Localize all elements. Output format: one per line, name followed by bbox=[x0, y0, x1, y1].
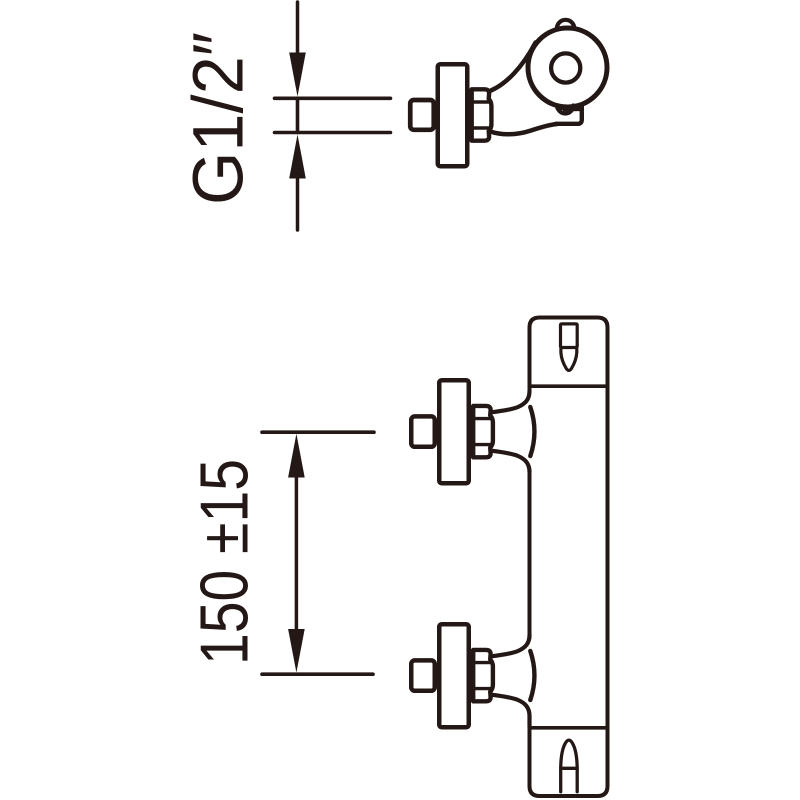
upper inlet union nut, front view bbox=[473, 406, 493, 457]
dimension arrowhead top (points down) bbox=[289, 53, 306, 97]
upper inlet trumpet top edge bbox=[492, 391, 530, 412]
outlet tab under valve bbox=[556, 108, 582, 124]
extension line upper (150 dim) bbox=[262, 430, 374, 434]
svg-text:150 ±15: 150 ±15 bbox=[187, 459, 263, 665]
valve body circle bbox=[528, 28, 607, 107]
indicator window rect, top bbox=[561, 324, 578, 348]
inlet stub, side view bbox=[410, 100, 434, 130]
extension line lower (pipe bottom) bbox=[275, 131, 391, 135]
lower inlet wall flange, front view bbox=[439, 624, 469, 727]
dimension leader line bottom bbox=[296, 176, 300, 230]
shower arm lower curve bbox=[490, 124, 558, 134]
upper inlet bell arc bbox=[530, 407, 534, 456]
dark wedge where tab meets valve body bbox=[563, 103, 584, 111]
lug bump bottom of valve bbox=[557, 106, 573, 114]
dimension leader line top bbox=[296, 2, 300, 55]
indicator crossbar, bottom bbox=[561, 767, 578, 770]
body seam line bottom bbox=[532, 726, 607, 730]
dim arrowhead up (150 dim) bbox=[288, 434, 305, 478]
wall flange, side view bbox=[438, 64, 468, 166]
upper inlet trumpet bottom edge bbox=[492, 451, 530, 472]
mixer body outline bbox=[530, 318, 608, 797]
svg-text:G1/2″: G1/2″ bbox=[180, 32, 259, 205]
upper inlet wall flange, front view bbox=[439, 380, 469, 483]
shower arm upper curve bbox=[491, 43, 536, 91]
lug bump top of valve bbox=[557, 20, 574, 29]
body seam line top bbox=[532, 384, 607, 388]
connector segment between pipe lines bbox=[296, 98, 300, 132]
upper inlet stub, front view bbox=[411, 416, 435, 446]
extension line lower (150 dim) bbox=[262, 672, 373, 676]
indicator bullet, top bbox=[561, 349, 577, 370]
union nut, side view bbox=[472, 89, 492, 140]
lower inlet stub, front view bbox=[411, 660, 435, 690]
dim arrowhead down (150 dim) bbox=[288, 629, 305, 673]
valve bore inner circle bbox=[551, 53, 580, 82]
indicator arch, bottom bbox=[561, 740, 578, 792]
dimension arrowhead bottom (points up) bbox=[289, 135, 306, 179]
lower inlet trumpet bottom edge bbox=[492, 695, 530, 727]
lower inlet bell arc bbox=[530, 651, 534, 700]
lower inlet union nut, front view bbox=[473, 650, 493, 701]
extension line upper (pipe top) bbox=[275, 97, 391, 101]
lower inlet trumpet top edge bbox=[492, 635, 530, 656]
dim shaft (150 dim) bbox=[295, 475, 299, 632]
